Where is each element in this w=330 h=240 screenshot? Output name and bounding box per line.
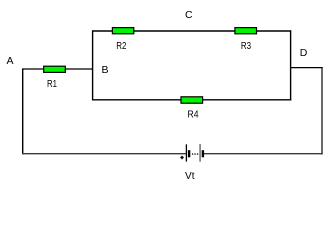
wire rectangle bottom xyxy=(92,99,291,101)
svg-text:R3: R3 xyxy=(241,40,251,52)
wire bottom left segment xyxy=(22,153,186,155)
resistor R3 xyxy=(235,28,257,34)
resistor R2 xyxy=(112,28,133,34)
svg-text:R4: R4 xyxy=(188,109,199,121)
battery Vt short plate 1 xyxy=(188,150,190,157)
battery Vt long plate 1 xyxy=(185,144,187,161)
svg-text:R2: R2 xyxy=(116,40,126,52)
battery Vt short plate 2 xyxy=(202,150,204,157)
wire left outer vertical xyxy=(22,68,24,154)
resistor R1 xyxy=(44,66,66,72)
resistor R4 xyxy=(181,97,203,103)
svg-text:A: A xyxy=(6,55,13,67)
wire bottom right segment xyxy=(204,153,323,155)
svg-text:Vt: Vt xyxy=(185,170,195,182)
svg-text:B: B xyxy=(101,64,108,76)
wire right outer vertical xyxy=(321,68,323,155)
battery Vt long plate 2 xyxy=(199,144,201,162)
wire A to B horizontal xyxy=(23,68,93,70)
wire rectangle right wall xyxy=(290,30,292,100)
svg-text:C: C xyxy=(185,9,193,21)
wire rectangle top xyxy=(92,30,291,32)
battery Vt plus sign xyxy=(180,156,183,159)
wire rectangle left wall B xyxy=(92,30,94,100)
battery dotted cells xyxy=(192,153,198,154)
wire D to right outer xyxy=(291,67,323,69)
svg-text:D: D xyxy=(300,47,308,59)
svg-text:R1: R1 xyxy=(47,78,57,90)
